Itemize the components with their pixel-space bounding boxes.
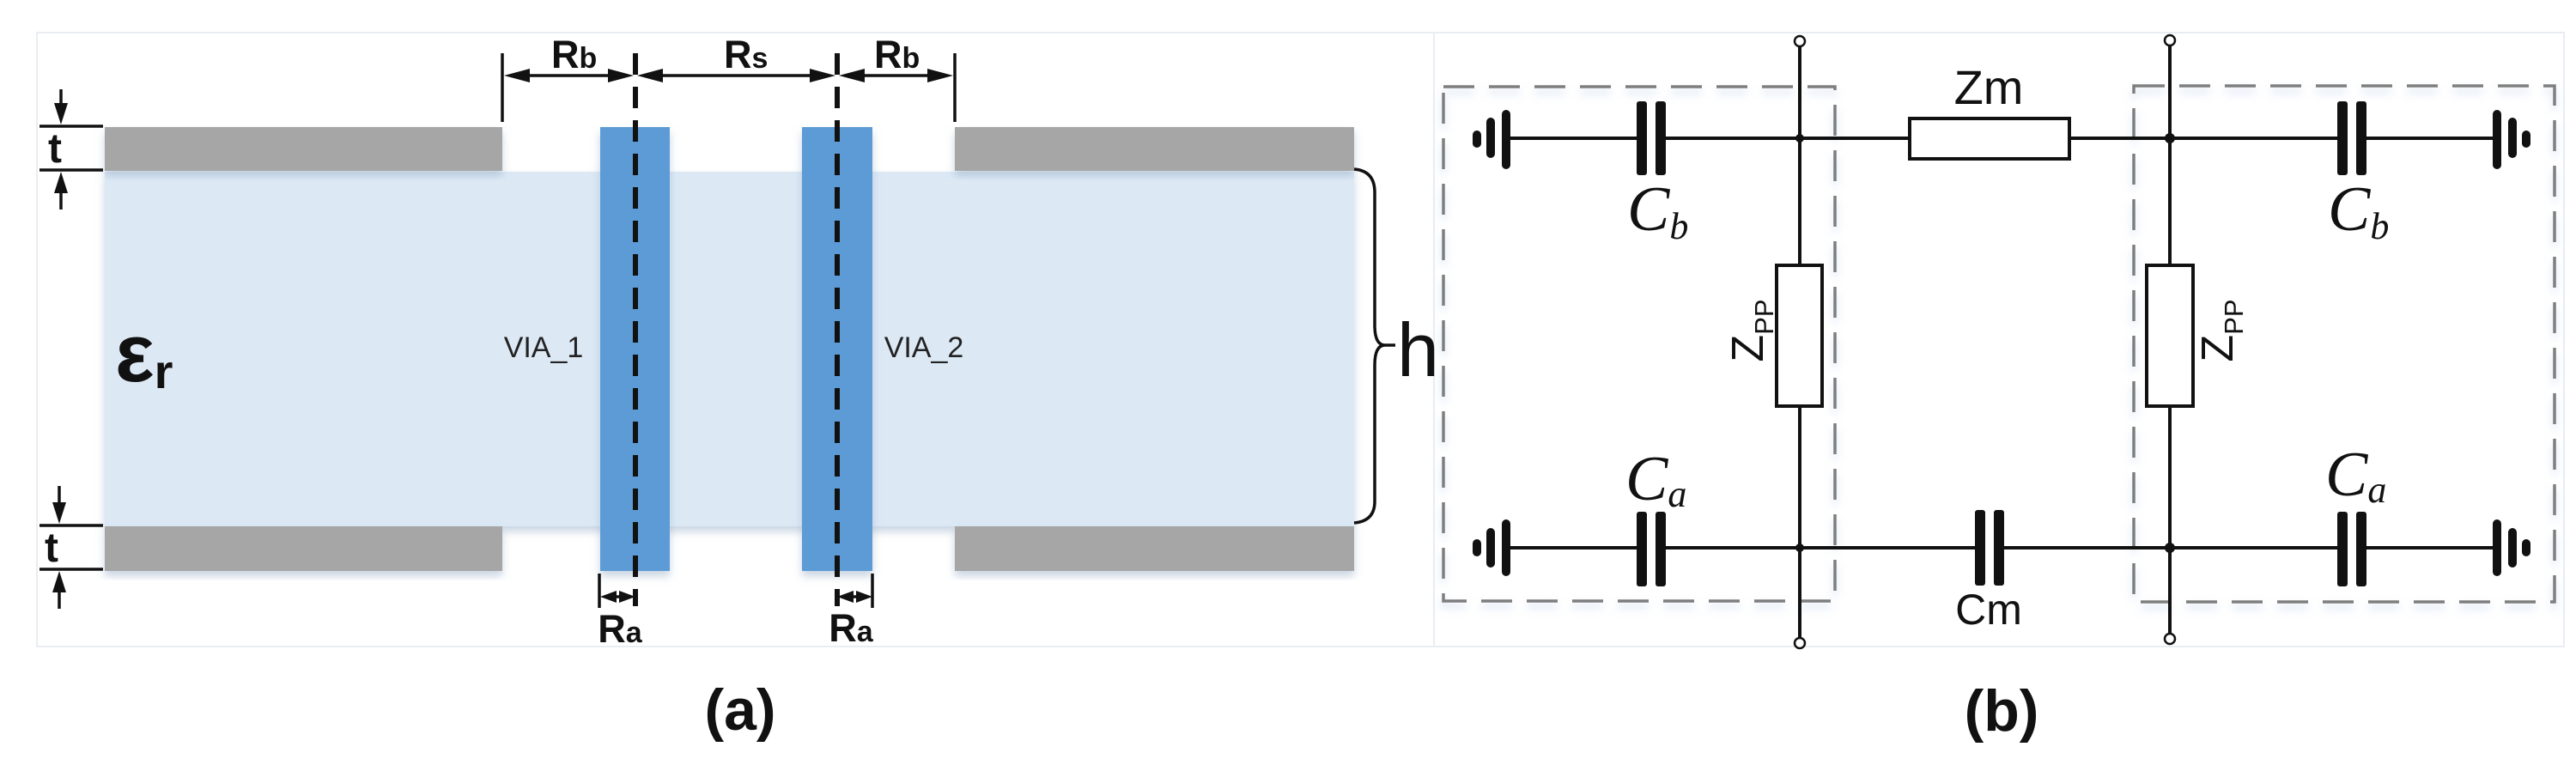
dimension line Rb right xyxy=(850,74,944,77)
dimension line Rs xyxy=(648,74,824,77)
svg-text:Rs: Rs xyxy=(724,33,768,76)
ground bottom-right xyxy=(2497,524,2526,572)
via VIA_2 dashed centerline xyxy=(835,53,840,606)
svg-text:ZPP: ZPP xyxy=(1723,299,1779,361)
t dimension top: down arrow xyxy=(59,89,63,108)
t dimension bottom: down arrow xyxy=(58,486,61,505)
brace to h tick xyxy=(1385,343,1395,347)
capacitor Cm plates xyxy=(1975,510,1985,586)
capacitor Ca left plates xyxy=(1637,512,1647,586)
svg-text:Rb: Rb xyxy=(551,33,597,76)
wire Zm to right node xyxy=(2069,137,2344,140)
ground top-left xyxy=(1477,114,1506,165)
svg-text:Ca: Ca xyxy=(1625,444,1686,515)
vertical wire right xyxy=(2168,46,2172,265)
svg-text:(a): (a) xyxy=(704,677,775,743)
ground bottom-left xyxy=(1477,524,1506,572)
curly brace h xyxy=(1354,169,1385,523)
wire top-left b xyxy=(1662,137,1911,140)
wire bottom cap right to ground xyxy=(2362,546,2493,550)
svg-text:Cb: Cb xyxy=(2328,174,2389,247)
wire bottom-left b xyxy=(1662,546,1978,550)
wire top-left a xyxy=(1510,137,1640,140)
junction dot left-bottom xyxy=(1795,543,1804,552)
svg-text:VIA_2: VIA_2 xyxy=(884,331,964,364)
wire bottom Cm to right xyxy=(2001,546,2341,550)
Ra dimension via1 xyxy=(598,574,601,608)
dimension tick right (Rb) xyxy=(953,53,957,122)
terminal circle top-left xyxy=(1795,36,1805,46)
faint figure border xyxy=(37,33,2564,647)
svg-text:t: t xyxy=(48,126,62,172)
t dimension bottom: up arrow xyxy=(52,571,66,592)
via VIA_1 barrel xyxy=(600,127,670,571)
dimension tick left (Rb) xyxy=(501,53,504,122)
ground top-right xyxy=(2497,114,2526,165)
svg-text:(b): (b) xyxy=(1965,678,2039,744)
t dimension bottom: ticks xyxy=(39,524,103,527)
svg-text:ZPP: ZPP xyxy=(2193,299,2249,361)
impedance Zpp left box xyxy=(1777,265,1822,406)
capacitor Cb left plates xyxy=(1637,101,1647,175)
junction dot left-top xyxy=(1795,134,1804,143)
faint divider between panels xyxy=(1433,33,1435,647)
bottom copper plate left xyxy=(105,526,502,571)
capacitor Ca right plates xyxy=(2337,512,2348,586)
svg-text:VIA_1: VIA_1 xyxy=(504,331,584,364)
svg-text:Cm: Cm xyxy=(1955,586,2022,634)
svg-text:t: t xyxy=(45,525,58,571)
top copper plate right xyxy=(955,127,1354,171)
dashed box left xyxy=(1443,87,1835,601)
svg-text:Cb: Cb xyxy=(1627,174,1688,247)
svg-text:Rb: Rb xyxy=(874,33,920,76)
impedance Zpp right box xyxy=(2147,265,2193,406)
svg-text:h: h xyxy=(1397,307,1439,392)
terminal circle bottom-right xyxy=(2165,634,2175,644)
dielectric substrate xyxy=(105,172,1354,526)
vertical wire left xyxy=(1798,46,1801,265)
dimension line Rb left xyxy=(515,74,624,77)
bottom copper plate right xyxy=(955,526,1354,571)
svg-text:Ca: Ca xyxy=(2325,440,2386,511)
terminal circle top-right xyxy=(2165,35,2175,46)
capacitor Cb right plates xyxy=(2337,101,2348,175)
junction dot right-bottom xyxy=(2165,543,2175,553)
via VIA_2 barrel xyxy=(802,127,872,571)
t dimension top: ticks xyxy=(39,124,103,128)
terminal circle bottom-left xyxy=(1795,638,1805,648)
dashed box right xyxy=(2134,86,2555,602)
t dimension top: up arrow xyxy=(54,172,68,193)
top copper plate left xyxy=(105,127,502,171)
svg-text:Zm: Zm xyxy=(1954,60,2024,114)
via VIA_1 dashed centerline xyxy=(633,53,638,606)
wire cap right to ground xyxy=(2363,137,2493,140)
wire bottom-left a xyxy=(1510,546,1640,550)
impedance Zm box xyxy=(1910,118,2069,159)
junction dot right-top xyxy=(2165,133,2175,143)
svg-text:Ra: Ra xyxy=(598,607,643,651)
svg-text:Ra: Ra xyxy=(829,606,874,650)
Ra dimension via2 xyxy=(871,574,874,608)
